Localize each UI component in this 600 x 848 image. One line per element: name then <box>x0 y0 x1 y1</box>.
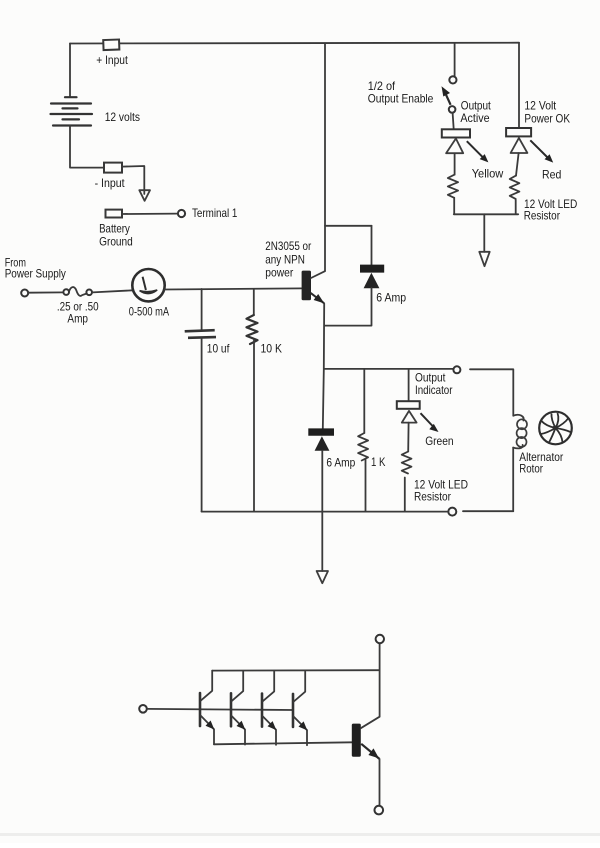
svg-text:Battery: Battery <box>99 221 130 235</box>
svg-text:Indicator: Indicator <box>415 383 453 397</box>
svg-text:Power OK: Power OK <box>524 111 570 125</box>
svg-text:2N3055 or: 2N3055 or <box>265 239 311 253</box>
svg-text:Ground: Ground <box>99 234 133 248</box>
svg-text:12 volts: 12 volts <box>105 110 140 124</box>
svg-text:- Input: - Input <box>95 176 126 190</box>
svg-text:+ Input: + Input <box>96 53 128 67</box>
svg-text:Output Enable: Output Enable <box>368 92 434 106</box>
svg-text:Resistor: Resistor <box>524 208 560 222</box>
svg-text:10 uf: 10 uf <box>207 342 230 356</box>
svg-text:12 Volt: 12 Volt <box>524 98 556 112</box>
svg-text:Green: Green <box>425 434 453 448</box>
svg-text:10 K: 10 K <box>261 342 283 356</box>
svg-text:Active: Active <box>460 111 489 125</box>
svg-text:Red: Red <box>542 168 561 182</box>
svg-text:0-500 mA: 0-500 mA <box>129 304 169 318</box>
svg-text:6 Amp: 6 Amp <box>326 455 355 469</box>
svg-text:Rotor: Rotor <box>519 462 543 476</box>
svg-text:1 K: 1 K <box>371 455 386 469</box>
svg-text:Output: Output <box>461 98 492 112</box>
svg-text:Power Supply: Power Supply <box>5 266 66 280</box>
svg-text:power: power <box>265 266 293 280</box>
svg-text:Terminal 1: Terminal 1 <box>192 206 238 220</box>
svg-text:Yellow: Yellow <box>472 167 504 181</box>
svg-text:Resistor: Resistor <box>414 489 451 503</box>
svg-text:any NPN: any NPN <box>265 252 305 266</box>
svg-text:6 Amp: 6 Amp <box>376 290 406 304</box>
svg-text:Amp: Amp <box>67 312 88 326</box>
